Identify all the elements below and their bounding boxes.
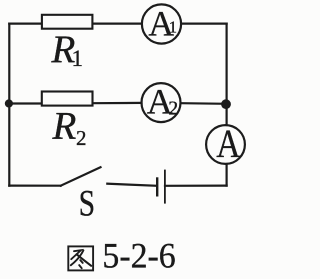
svg-text:1: 1 [72,46,84,71]
wire top row left [9,23,41,25]
node left junction [5,99,13,107]
wire A1 to right corner [182,23,227,25]
svg-text:S: S [79,184,95,225]
wire row2 left [9,102,40,104]
svg-text:R: R [52,104,77,147]
wire node to ammeter A [226,104,228,125]
battery long plate [164,170,166,204]
wire left vertical [8,24,10,186]
ammeter A2 circle [142,83,181,122]
svg-text:1: 1 [169,18,177,37]
switch S blade [61,167,101,186]
wire R1 to A1 [93,23,141,25]
svg-text:2: 2 [168,97,178,119]
wire bottom left segment [9,185,60,187]
ammeter A1 circle [142,4,181,43]
battery short plate [156,177,158,196]
svg-text:2: 2 [76,126,87,150]
node right junction [221,99,231,109]
wire battery to switch [107,184,157,186]
wire bottom right segment [165,185,227,187]
resistor R2 [42,92,93,106]
wire R2 to A2 [94,102,142,104]
svg-text:A: A [216,121,241,165]
wire A down to bottom corner [226,164,228,185]
caption character tu (figure) drawn [68,246,93,270]
resistor R1 [42,15,93,29]
svg-text:5-2-6: 5-2-6 [102,236,175,276]
wire right vertical upper [226,24,228,104]
wire A2 to right node [182,102,227,105]
ammeter A circle [206,125,245,164]
